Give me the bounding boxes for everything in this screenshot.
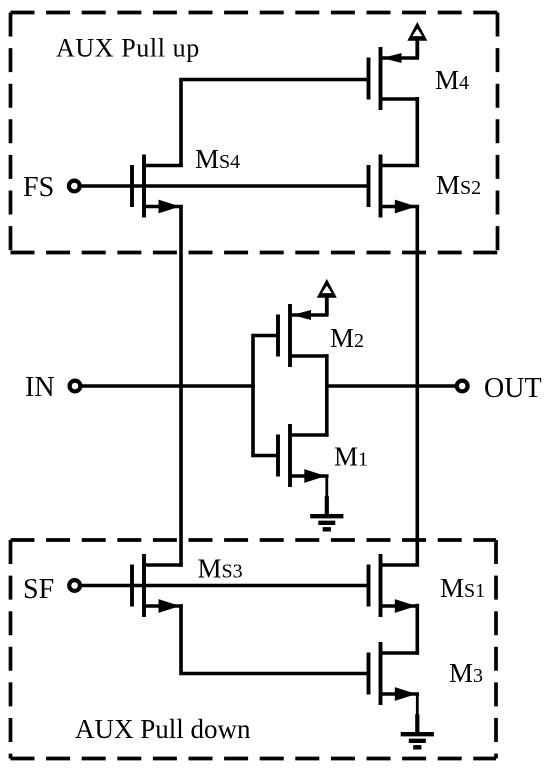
svg-text:M1: M1 (334, 442, 368, 472)
svg-text:AUX Pull up: AUX Pull up (56, 34, 200, 63)
transistor MS3 source arrow (159, 599, 181, 613)
transistor MS2 source arrow (395, 200, 417, 214)
svg-text:MS2: MS2 (436, 170, 481, 200)
ground symbol at M3 source (416, 694, 419, 715)
transistor M3 source lead (381, 692, 420, 696)
svg-text:MS1: MS1 (440, 573, 485, 603)
wire MS2 source down to OUT node and MS1 drain (415, 205, 419, 566)
transistor MS3 drain lead (144, 563, 183, 567)
svg-text:IN: IN (25, 372, 55, 403)
transistor MS4 gate bar (130, 165, 134, 207)
transistor MS3 channel bar (142, 554, 146, 617)
transistor MS4 source lead (144, 205, 183, 209)
transistor M4 source arrow (383, 53, 402, 63)
transistor MS4 channel bar (142, 155, 146, 218)
dashed box: AUX pull-down network (11, 540, 497, 759)
terminal IN (70, 381, 81, 392)
svg-text:M2: M2 (330, 323, 364, 353)
transistor M3 channel bar (379, 642, 383, 705)
transistor M4 channel bar (379, 47, 383, 110)
wire SF to gates of MS3 and MS1 (81, 584, 369, 588)
transistor M1 drain lead (290, 433, 329, 437)
transistor M1 channel bar (288, 424, 292, 487)
transistor M4 source lead (381, 56, 420, 60)
wire M2 drain to M1 drain (output bus) (325, 354, 329, 437)
transistor MS3 source lead (144, 604, 183, 608)
terminal SF (69, 580, 80, 591)
transistor M4 gate bar (367, 58, 371, 100)
transistor M2 channel bar (288, 304, 292, 367)
transistor MS4 source arrow (159, 200, 181, 214)
transistor MS2 drain lead (381, 164, 420, 168)
wire MS4 source down to MS3 drain (179, 205, 183, 567)
transistor MS1 source lead (381, 604, 420, 608)
transistor MS1 source arrow (395, 599, 417, 613)
wire MS1 source to M3 drain (415, 604, 419, 655)
svg-text:MS4: MS4 (195, 144, 240, 174)
transistor MS2 channel bar (379, 155, 383, 218)
wire OUT line (327, 384, 457, 388)
power VDD symbol at M4 source (415, 38, 419, 58)
transistor M1 source arrow (304, 469, 326, 483)
svg-text:M4: M4 (435, 65, 469, 95)
transistor MS3 gate bar (130, 565, 134, 607)
svg-text:MS3: MS3 (198, 554, 243, 584)
svg-text:AUX Pull down: AUX Pull down (75, 714, 251, 744)
wire IN to gate bus (81, 384, 255, 388)
wire M1 gate lead from bus (253, 454, 278, 458)
transistor MS2 source lead (381, 205, 420, 209)
power VDD symbol at M2 source (325, 295, 329, 315)
wire MS4 drain up and across to M4 gate (181, 80, 369, 168)
transistor MS1 gate bar (367, 565, 371, 607)
wire MS3 source down and across to M3 gate (181, 604, 369, 673)
dashed box: AUX pull-up network (11, 13, 498, 253)
svg-text:FS: FS (23, 172, 54, 203)
transistor M2 drain lead (290, 354, 329, 358)
transistor M3 gate bar (367, 653, 371, 695)
wire M4 drain to MS2 drain (415, 97, 419, 167)
transistor M2 gate bar (276, 315, 280, 357)
wire M2 gate lead from bus (253, 334, 278, 338)
transistor M4 drain lead (381, 97, 420, 101)
transistor MS1 channel bar (379, 554, 383, 617)
wire FS to gates of MS4 and MS2 (81, 184, 369, 188)
transistor MS1 drain lead (381, 563, 420, 567)
svg-text:SF: SF (23, 574, 54, 605)
terminal OUT (457, 381, 468, 392)
terminal FS (69, 181, 80, 192)
transistor M2 source lead (290, 313, 329, 317)
svg-text:M3: M3 (449, 658, 483, 688)
transistor M1 gate bar (276, 435, 280, 477)
transistor M1 source lead (290, 474, 329, 478)
ground symbol at M1 source (325, 476, 328, 497)
wire gate bus joining M2 and M1 gates (251, 334, 255, 458)
svg-text:OUT: OUT (484, 373, 542, 404)
transistor MS2 gate bar (367, 165, 371, 207)
transistor M3 drain lead (381, 651, 420, 655)
transistor MS4 drain lead (144, 164, 183, 168)
transistor M3 source arrow (395, 687, 417, 701)
transistor M2 source arrow (292, 310, 311, 320)
